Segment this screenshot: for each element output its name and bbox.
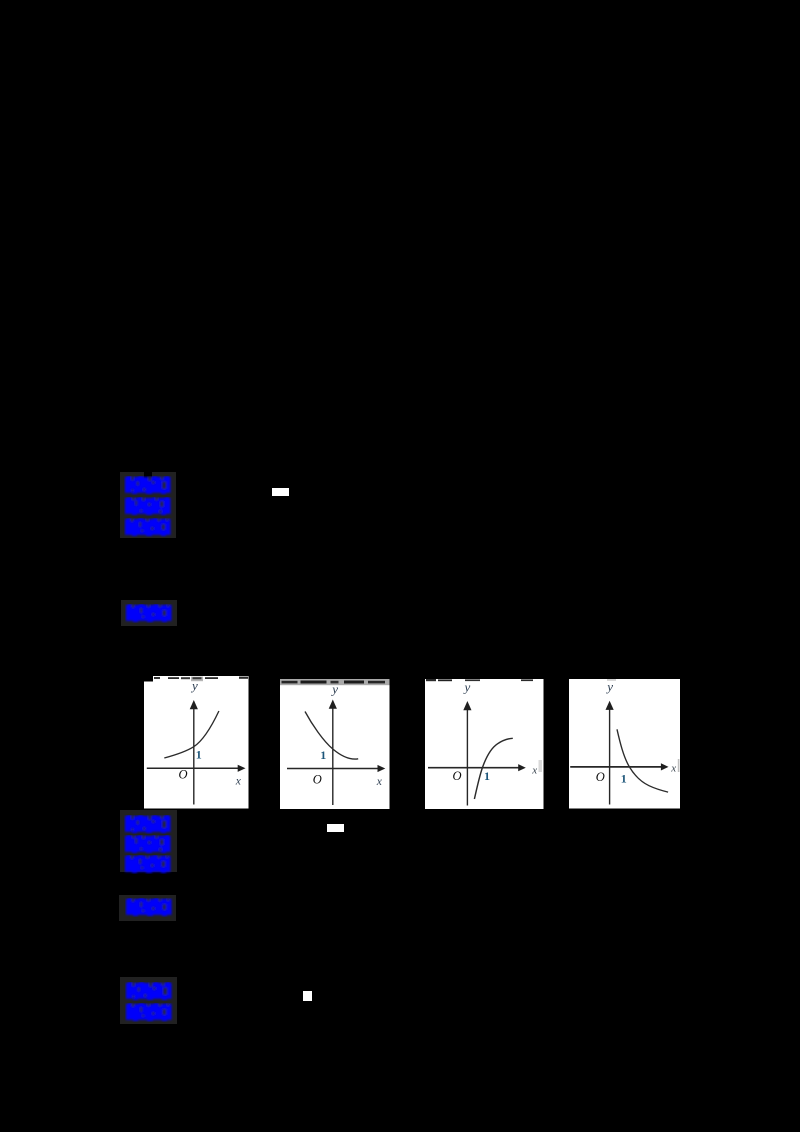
svg-text:x: x — [376, 775, 383, 787]
svg-text:1: 1 — [320, 748, 326, 762]
svg-text:x: x — [235, 775, 242, 787]
svg-text:1: 1 — [196, 748, 202, 762]
svg-text:O: O — [453, 769, 462, 783]
svg-text:x: x — [670, 762, 676, 774]
svg-text:O: O — [313, 772, 322, 786]
svg-text:O: O — [179, 768, 188, 782]
svg-text:y: y — [330, 681, 338, 696]
svg-text:1: 1 — [484, 769, 490, 783]
svg-text:y: y — [605, 679, 613, 694]
svg-text:x: x — [531, 764, 537, 776]
svg-text:1: 1 — [621, 771, 627, 785]
svg-text:y: y — [463, 679, 471, 694]
svg-text:y: y — [190, 678, 198, 693]
svg-text:O: O — [596, 770, 605, 784]
